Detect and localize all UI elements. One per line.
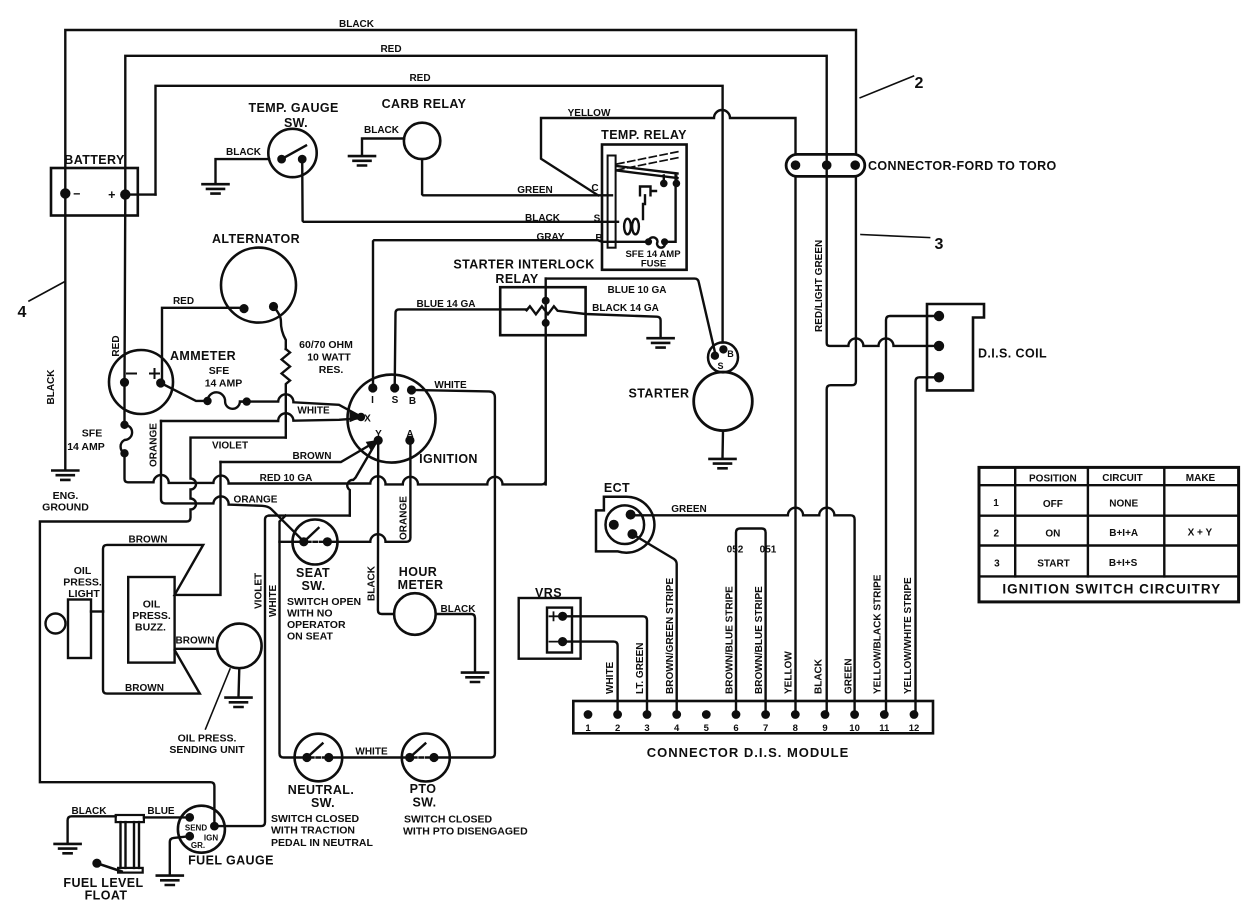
wire neutral to PTO WHITE	[329, 756, 410, 758]
svg-text:14 AMP: 14 AMP	[205, 378, 243, 390]
table ignition switch circuitry	[979, 467, 1239, 602]
svg-text:BUZZ.: BUZZ.	[135, 622, 166, 634]
temp relay contact stubs	[664, 176, 677, 182]
svg-text:ON: ON	[1045, 529, 1060, 540]
temp relay box K2	[602, 145, 687, 270]
svg-text:METER: METER	[398, 578, 444, 592]
wire carb relay to ground	[362, 139, 404, 156]
wire sending unit to ground	[237, 668, 240, 697]
svg-text:SEND: SEND	[185, 824, 207, 833]
svg-text:ECT: ECT	[604, 481, 630, 495]
svg-text:BLACK: BLACK	[46, 369, 57, 405]
temp relay contact step	[640, 187, 656, 220]
svg-text:BROWN/BLUE STRIPE: BROWN/BLUE STRIPE	[725, 586, 736, 694]
starter motor M2	[694, 372, 753, 431]
svg-text:60/70 OHM: 60/70 OHM	[299, 339, 353, 351]
wire fuel gauge GR to ground	[170, 836, 190, 875]
svg-text:BLACK: BLACK	[226, 147, 262, 158]
svg-text:SW.: SW.	[311, 796, 335, 810]
wire VRS plus to DIS pin3	[563, 616, 647, 716]
svg-text:SW.: SW.	[412, 796, 436, 810]
svg-text:11: 11	[879, 723, 890, 734]
wire seat left vertical WHITE to neutral sw	[280, 516, 307, 758]
wire BLACK float to ground	[68, 816, 116, 843]
pointer 3 leader	[861, 235, 930, 238]
svg-text:SW.: SW.	[301, 579, 325, 593]
wire BROWN bottom loop	[103, 612, 217, 694]
svg-text:LT. GREEN: LT. GREEN	[635, 643, 646, 694]
svg-text:VRS: VRS	[535, 586, 562, 600]
fuse F2 SFE 14 AMP horizontal	[208, 392, 247, 408]
svg-text:HOUR: HOUR	[399, 565, 437, 579]
svg-text:D.I.S. COIL: D.I.S. COIL	[978, 347, 1047, 361]
svg-text:BLACK: BLACK	[364, 125, 400, 136]
svg-text:BLACK: BLACK	[441, 604, 477, 615]
svg-text:WITH NO: WITH NO	[287, 608, 333, 620]
svg-text:CONNECTOR D.I.S. MODULE: CONNECTOR D.I.S. MODULE	[647, 745, 850, 760]
temp relay armature bar	[608, 156, 616, 248]
wire DIS coil top pin to pin11	[886, 316, 939, 716]
svg-text:YELLOW: YELLOW	[784, 651, 795, 694]
node Y arrowhead	[367, 440, 379, 449]
svg-text:4: 4	[18, 304, 27, 321]
svg-text:STARTER: STARTER	[629, 387, 690, 401]
wire alternator RED to ammeter plus	[162, 308, 244, 383]
wire ignition B WHITE loop to PTO	[412, 390, 495, 758]
svg-text:WHITE: WHITE	[297, 406, 330, 417]
svg-text:B+I+A: B+I+A	[1109, 528, 1138, 539]
wire RED 10 GA from fuse to starter interlock relay	[125, 335, 546, 484]
svg-text:BLUE: BLUE	[147, 806, 175, 817]
pointer 2 leader	[860, 76, 913, 98]
svg-text:CIRCUIT: CIRCUIT	[1102, 473, 1143, 484]
svg-text:OIL PRESS.: OIL PRESS.	[178, 733, 237, 745]
svg-text:X + Y: X + Y	[1188, 528, 1213, 539]
temp relay fuse SFE 14 AMP	[649, 175, 676, 248]
svg-text:SWITCH OPEN: SWITCH OPEN	[287, 596, 361, 608]
svg-text:RELAY: RELAY	[495, 272, 538, 286]
svg-text:BROWN: BROWN	[176, 636, 215, 647]
svg-text:ORANGE: ORANGE	[149, 423, 160, 467]
svg-text:IGNITION: IGNITION	[419, 452, 478, 466]
DIS module pins	[585, 711, 917, 717]
wire BLACK top rail	[65, 30, 856, 168]
PTO switch S5	[402, 734, 450, 782]
svg-text:10: 10	[849, 723, 860, 734]
svg-text:B: B	[727, 349, 734, 359]
wire BLUE float to fuel gauge SEND	[144, 816, 190, 818]
svg-text:7: 7	[763, 723, 768, 734]
svg-text:SFE: SFE	[209, 365, 229, 377]
fuel level float sender	[116, 815, 144, 822]
svg-text:BLUE 10 GA: BLUE 10 GA	[608, 285, 667, 296]
wire battery plus jumper to red rail 2	[125, 193, 155, 195]
temp relay armature	[617, 166, 678, 178]
svg-text:RED: RED	[173, 296, 194, 307]
svg-text:+: +	[108, 188, 116, 202]
wire ORANGE lower to ignition X	[161, 413, 358, 421]
svg-text:IGN: IGN	[204, 834, 218, 843]
seat switch S3	[293, 520, 338, 565]
wire BLUE 10 GA relay to starter solenoid	[546, 279, 715, 352]
svg-text:GR.: GR.	[191, 841, 205, 850]
svg-text:RED: RED	[380, 44, 401, 55]
pointer sending unit leader	[206, 669, 231, 729]
DIS coil T1	[927, 304, 984, 390]
svg-text:9: 9	[822, 723, 827, 734]
svg-text:WITH TRACTION: WITH TRACTION	[271, 825, 355, 837]
svg-text:C: C	[591, 183, 598, 194]
svg-text:LIGHT: LIGHT	[68, 588, 100, 600]
wire seat right to ignition A riser	[327, 440, 410, 541]
wire seat left terminal	[280, 541, 301, 543]
svg-text:OPERATOR: OPERATOR	[287, 619, 346, 631]
wire YELLOW temp-relay C to connector pin1	[541, 110, 796, 195]
svg-text:14 AMP: 14 AMP	[67, 441, 105, 453]
svg-text:ON SEAT: ON SEAT	[287, 631, 333, 643]
wire alternator right to resistor	[274, 307, 286, 350]
ground float black ground	[55, 844, 81, 853]
svg-text:BLACK: BLACK	[339, 19, 375, 30]
wire GREEN ECT to DIS pin10	[634, 508, 855, 716]
float lever	[94, 860, 101, 867]
svg-text:YELLOW: YELLOW	[568, 108, 611, 119]
svg-text:FLOAT: FLOAT	[85, 889, 128, 903]
svg-text:B: B	[409, 396, 416, 407]
wire connector pin3 down, jog left, down to DIS pin9 (BLACK)	[827, 176, 856, 716]
temp relay coil	[624, 219, 631, 235]
neutral switch S4	[295, 734, 343, 782]
svg-text:4: 4	[674, 723, 680, 734]
wire BROWN buzzer to ignition Y	[221, 443, 375, 462]
svg-text:8: 8	[793, 723, 798, 734]
svg-text:GREEN: GREEN	[671, 504, 707, 515]
svg-text:Y: Y	[375, 429, 382, 440]
svg-text:SENDING UNIT: SENDING UNIT	[169, 744, 245, 756]
wire ignition S BLUE 14 GA riser	[395, 309, 527, 388]
starter interlock relay K3	[500, 287, 585, 335]
svg-text:3: 3	[644, 723, 649, 734]
svg-text:NONE: NONE	[1109, 499, 1138, 510]
svg-text:PRESS.: PRESS.	[63, 577, 102, 589]
wire temp sw right contact down and to temp relay S	[302, 159, 618, 222]
svg-text:BROWN/GREEN STRIPE: BROWN/GREEN STRIPE	[665, 578, 676, 694]
svg-text:ORANGE: ORANGE	[399, 496, 410, 540]
wire RED rail 1	[125, 56, 826, 195]
svg-text:1: 1	[993, 498, 999, 509]
svg-text:5: 5	[704, 723, 710, 734]
svg-text:SEAT: SEAT	[296, 566, 330, 580]
svg-text:POSITION: POSITION	[1029, 474, 1077, 485]
svg-text:WHITE: WHITE	[434, 380, 467, 391]
temp gauge switch SW1	[268, 129, 316, 177]
svg-text:BLACK 14 GA: BLACK 14 GA	[592, 303, 659, 314]
svg-text:X: X	[364, 414, 371, 425]
wire ECT to DIS pin4	[632, 534, 676, 716]
ground black 14 ga ground	[648, 338, 674, 347]
svg-text:GROUND: GROUND	[42, 502, 89, 514]
ground sending unit ground	[226, 698, 252, 707]
svg-text:I: I	[371, 395, 374, 406]
wire 052/051 bracket pins 6 and 7	[736, 529, 766, 717]
svg-text:FUEL GAUGE: FUEL GAUGE	[188, 854, 274, 868]
svg-text:SWITCH CLOSED: SWITCH CLOSED	[271, 813, 359, 825]
svg-text:BATTERY: BATTERY	[64, 153, 125, 167]
svg-text:OIL: OIL	[74, 565, 92, 577]
svg-text:RED 10 GA: RED 10 GA	[260, 473, 313, 484]
svg-text:BROWN: BROWN	[129, 535, 168, 546]
svg-text:10 WATT: 10 WATT	[307, 352, 351, 364]
svg-text:BLUE 14 GA: BLUE 14 GA	[417, 299, 476, 310]
wire BROWN top loop	[103, 462, 221, 612]
svg-text:PRESS.: PRESS.	[132, 610, 171, 622]
wire connector pin2 down then right to DIS coil mid pin (RED/LIGHT GREEN)	[827, 176, 939, 346]
svg-text:6: 6	[733, 723, 738, 734]
svg-text:ENG.: ENG.	[53, 490, 79, 502]
node X arrowhead	[350, 413, 361, 422]
svg-text:BLACK: BLACK	[367, 565, 378, 601]
oil press sending unit B1	[217, 624, 262, 669]
ground engine ground	[52, 471, 78, 480]
svg-text:VIOLET: VIOLET	[254, 573, 265, 609]
svg-text:AMMETER: AMMETER	[170, 349, 236, 363]
svg-text:−: −	[73, 187, 81, 201]
VRS sensor	[519, 598, 581, 659]
svg-text:NEUTRAL.: NEUTRAL.	[288, 783, 354, 797]
label DIS pin numbers	[585, 723, 919, 734]
svg-text:BROWN/BLUE STRIPE: BROWN/BLUE STRIPE	[754, 586, 765, 694]
svg-text:2: 2	[615, 723, 620, 734]
oil press buzzer BZ1	[128, 577, 174, 663]
svg-text:S: S	[594, 214, 601, 225]
carb relay K1	[404, 123, 440, 159]
ammeter M1	[109, 350, 173, 414]
svg-text:PEDAL IN NEUTRAL: PEDAL IN NEUTRAL	[271, 837, 373, 849]
ground fuel gauge ground	[157, 876, 183, 885]
connector DIS module J1	[573, 701, 933, 733]
battery BAT1	[51, 168, 138, 216]
svg-text:MAKE: MAKE	[1186, 473, 1216, 484]
svg-text:GRAY: GRAY	[537, 232, 565, 243]
wire battery neg down to engine ground	[64, 168, 66, 470]
wire carb relay bottom GREEN to temp relay C	[422, 159, 612, 195]
oil press light lamp DS1	[46, 614, 66, 634]
wire relay center vertical	[545, 279, 547, 485]
wire WHITE fuse to ignition X	[247, 394, 358, 414]
svg-text:3: 3	[994, 559, 1000, 570]
connector Ford-to-Toro oval	[786, 154, 865, 176]
wire seat switch white riser to ignition Y	[347, 443, 376, 516]
svg-text:BLACK: BLACK	[525, 213, 561, 224]
svg-text:2: 2	[994, 529, 1000, 540]
ECT connector J2	[596, 497, 654, 553]
svg-text:B+I+S: B+I+S	[1109, 558, 1138, 569]
pointer 4 leader	[29, 282, 64, 301]
alternator G1	[221, 248, 296, 323]
svg-text:OFF: OFF	[1043, 499, 1063, 510]
wire hour meter right to ground	[436, 614, 475, 672]
wire temp relay B GRAY internal to fuse	[373, 240, 649, 388]
wire ORANGE vertical and to seat switch	[161, 421, 304, 542]
svg-text:PTO: PTO	[410, 782, 437, 796]
svg-text:SWITCH CLOSED: SWITCH CLOSED	[404, 814, 492, 826]
resistor R1 60/70 ohm	[282, 349, 290, 438]
svg-text:2: 2	[915, 75, 924, 92]
svg-text:START: START	[1037, 559, 1070, 570]
wire white horizontal y=515.6	[269, 514, 350, 516]
svg-text:IGNITION SWITCH CIRCUITRY: IGNITION SWITCH CIRCUITRY	[1002, 582, 1221, 597]
wire battery plus down to ammeter	[123, 195, 126, 425]
svg-text:WHITE: WHITE	[605, 661, 616, 694]
svg-text:B: B	[595, 233, 602, 244]
svg-text:A: A	[406, 429, 413, 440]
svg-text:SW.: SW.	[284, 116, 308, 130]
svg-text:WHITE: WHITE	[355, 747, 388, 758]
svg-text:WITH PTO DISENGAGED: WITH PTO DISENGAGED	[403, 826, 528, 838]
svg-text:BLACK: BLACK	[814, 658, 825, 694]
svg-text:YELLOW/BLACK STRIPE: YELLOW/BLACK STRIPE	[873, 574, 884, 694]
wire VRS minus to DIS pin2	[563, 642, 618, 716]
svg-text:BROWN: BROWN	[125, 683, 164, 694]
svg-text:RED: RED	[111, 335, 122, 356]
svg-text:BLACK: BLACK	[72, 806, 108, 817]
svg-text:SFE: SFE	[82, 428, 102, 440]
svg-text:ORANGE: ORANGE	[234, 495, 278, 506]
hour meter M3	[394, 593, 436, 635]
svg-text:3: 3	[935, 236, 944, 253]
svg-text:S: S	[717, 361, 723, 371]
svg-text:VIOLET: VIOLET	[212, 441, 248, 452]
svg-text:051: 051	[760, 545, 777, 556]
wire starter to ground	[721, 431, 724, 459]
svg-text:RED/LIGHT GREEN: RED/LIGHT GREEN	[814, 240, 825, 332]
wire ignition Y down to hour meter	[378, 440, 394, 614]
svg-text:GREEN: GREEN	[517, 185, 553, 196]
wire temp gauge sw left to ground	[216, 159, 270, 184]
svg-text:S: S	[392, 395, 399, 406]
svg-text:BROWN: BROWN	[293, 451, 332, 462]
svg-text:052: 052	[727, 545, 744, 556]
svg-text:WHITE: WHITE	[268, 584, 279, 617]
wire VIOLET from resistor to left loop	[40, 438, 286, 826]
svg-text:OIL: OIL	[143, 599, 161, 611]
svg-text:YELLOW/WHITE STRIPE: YELLOW/WHITE STRIPE	[903, 577, 914, 694]
resistor R2 relay coil	[527, 306, 661, 337]
svg-text:RED: RED	[409, 73, 430, 84]
svg-text:CARB RELAY: CARB RELAY	[382, 97, 467, 111]
wire VIOLET vertical to fuel gauge	[216, 516, 269, 827]
svg-text:TEMP. RELAY: TEMP. RELAY	[601, 128, 687, 142]
svg-text:GREEN: GREEN	[844, 658, 855, 694]
ignition switch S2	[348, 375, 436, 463]
ground starter ground	[710, 459, 736, 468]
svg-text:TEMP. GAUGE: TEMP. GAUGE	[248, 101, 338, 115]
wire connector pin1 down to DIS pin8 (YELLOW)	[794, 176, 796, 716]
svg-text:FUSE: FUSE	[641, 259, 666, 270]
svg-text:12: 12	[909, 723, 920, 734]
fuel gauge M4	[178, 806, 225, 853]
fuse F1 SFE 14 AMP vertical	[121, 425, 133, 454]
ground temp sw ground	[203, 184, 229, 193]
svg-text:STARTER INTERLOCK: STARTER INTERLOCK	[453, 258, 594, 272]
svg-text:RES.: RES.	[319, 364, 344, 376]
svg-text:1: 1	[585, 723, 591, 734]
starter solenoid	[708, 342, 738, 372]
ground hour meter ground	[462, 673, 488, 682]
wire RED rail 2	[156, 86, 723, 343]
ground carb relay ground	[349, 156, 375, 165]
temp relay dashed throw	[617, 152, 679, 171]
node battery terminals	[61, 189, 69, 197]
svg-text:CONNECTOR-FORD TO TORO: CONNECTOR-FORD TO TORO	[868, 159, 1057, 173]
wire ammeter plus to fuse F2	[161, 383, 208, 401]
wire DIS coil bottom pin to pin12	[916, 377, 940, 716]
svg-text:ALTERNATOR: ALTERNATOR	[212, 232, 300, 246]
